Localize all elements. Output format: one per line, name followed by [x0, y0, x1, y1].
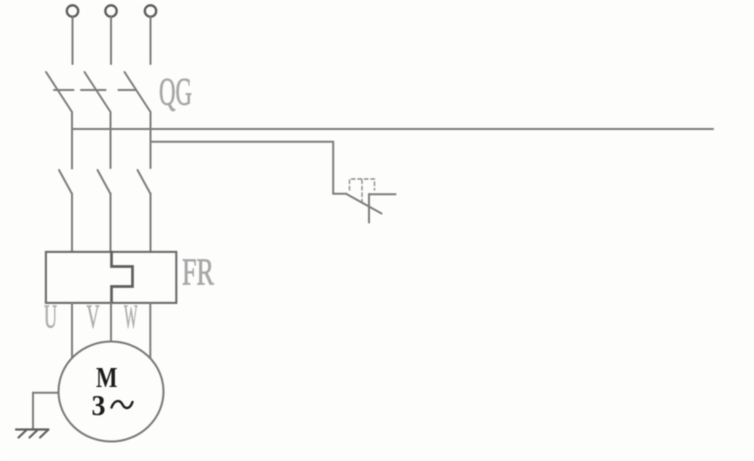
wire FR to motor U: [71, 303, 73, 365]
svg-text:W: W: [124, 299, 138, 336]
switch QG pole 2 blade: [85, 72, 111, 112]
terminal L1: [67, 5, 78, 16]
switch QG pole 3 blade: [125, 72, 151, 112]
wire L1 terminal to QG pole 1: [72, 17, 74, 64]
wire L2 terminal to QG pole 2: [110, 17, 112, 64]
wire from QG pole 1 to control circuit (long horizontal): [72, 128, 713, 130]
wire KM contact 2 to FR: [110, 194, 112, 253]
wire L3 terminal to QG pole 3: [150, 17, 152, 64]
wire FR to motor V: [110, 303, 112, 345]
motor M1 circle: [59, 342, 164, 442]
thermal overload relay FR box: [46, 252, 176, 303]
svg-text:QG: QG: [159, 71, 192, 114]
wire motor frame to ground: [33, 393, 60, 430]
wire tap from QG pole 3 to stop button: [151, 142, 347, 194]
stop push button SB fixed contact: [368, 194, 370, 223]
terminal L3: [145, 5, 156, 16]
label ~ (phase tilde): [112, 401, 133, 408]
stop push button SB actuator head (dashed): [350, 179, 375, 190]
svg-text:3: 3: [92, 391, 106, 422]
stop push button SB actuator stem (dashed): [361, 180, 363, 205]
svg-text:FR: FR: [182, 252, 214, 294]
wire from stop button to right: [369, 193, 396, 195]
wire QG pole 1 to KM contact 1: [71, 112, 73, 169]
svg-text:U: U: [44, 299, 57, 336]
contactor KM main contact 1 blade: [59, 170, 72, 194]
wire FR to motor W: [149, 303, 151, 370]
wire KM contact 1 to FR: [71, 194, 73, 253]
contactor KM main contact 3 blade: [138, 170, 151, 194]
wire QG pole 2 to KM contact 2: [110, 112, 112, 168]
switch QG mechanical linkage (dashed): [54, 89, 136, 91]
wire QG pole 3 to KM contact 3: [150, 112, 152, 168]
svg-text:M: M: [96, 362, 118, 394]
switch QG pole 1 blade: [46, 72, 72, 112]
contactor KM main contact 2 blade: [98, 170, 111, 194]
wire KM contact 3 to FR: [150, 194, 152, 253]
stop push button SB NC contact blade: [347, 194, 382, 214]
svg-text:V: V: [87, 299, 100, 336]
terminal L2: [105, 5, 116, 16]
ground: [16, 430, 49, 438]
FR heater element: [112, 252, 133, 303]
